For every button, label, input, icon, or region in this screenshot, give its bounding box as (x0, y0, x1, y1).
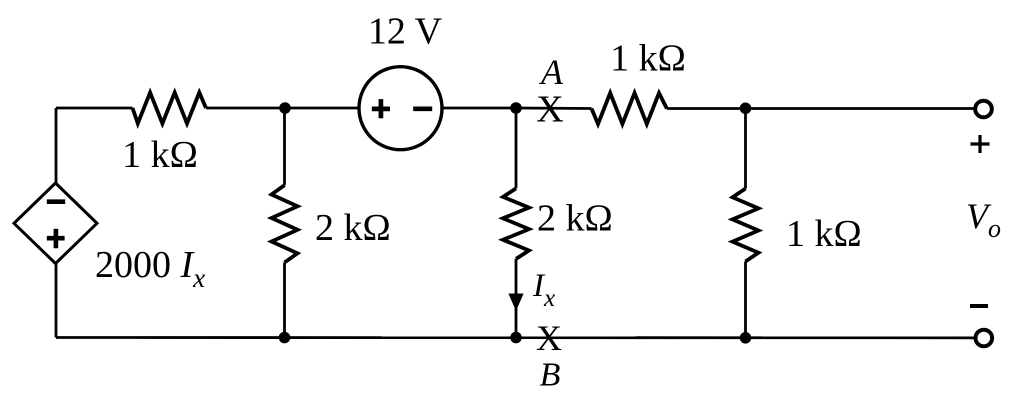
dependent source diamond 2000 Ix (14, 183, 97, 264)
wire: top rail from 12V source to node A (442, 107, 516, 110)
resistor 2 kOhm (middle, vertical) (503, 188, 529, 259)
wire: node A to R2 (516, 107, 592, 110)
plus sign at output (971, 135, 990, 153)
wire: middle branch vertical lower with current direction (515, 259, 518, 338)
wire: top-left vertical from dependent source to top rail (55, 108, 58, 183)
wire: middle branch vertical upper (515, 108, 518, 188)
svg-text:B: B (540, 357, 561, 394)
voltage source 12V circle (359, 67, 442, 150)
wire: first branch vertical upper (283, 108, 286, 185)
node: junction dot bottom-right branch (740, 332, 752, 344)
svg-text:1 kΩ: 1 kΩ (122, 134, 198, 176)
svg-text:Ix: Ix (532, 268, 555, 312)
wire: top rail left segment (56, 107, 133, 110)
wire: right branch vertical upper (744, 108, 747, 188)
svg-text:Vo: Vo (966, 196, 1001, 243)
terminal: output bottom open circle (976, 330, 993, 347)
resistor 1 kOhm (right, vertical) (733, 189, 759, 262)
wire: right branch vertical lower (744, 261, 747, 337)
resistor 2 kOhm (left, vertical) (272, 185, 298, 262)
resistor 1 kOhm (top-right, horizontal) (592, 93, 667, 124)
svg-text:2 kΩ: 2 kΩ (537, 198, 613, 240)
minus sign inside diamond (47, 199, 65, 204)
wire: bottom rail (56, 336, 974, 339)
terminal: output top open circle (975, 101, 992, 118)
node: junction dot bottom-middle (node B) (510, 332, 522, 344)
node: junction dot bottom-left branch (279, 332, 291, 344)
node: junction dot top-left (279, 102, 291, 114)
svg-text:12 V: 12 V (368, 11, 443, 53)
wire: top rail from R1 to 12V source (206, 107, 359, 110)
wire: first branch vertical lower (283, 263, 286, 338)
svg-text:2 kΩ: 2 kΩ (315, 207, 391, 249)
svg-text:A: A (539, 52, 564, 92)
node: junction dot top-right (740, 103, 752, 115)
svg-text:1 kΩ: 1 kΩ (786, 213, 862, 255)
minus sign inside 12V source (413, 106, 432, 111)
svg-text:1 kΩ: 1 kΩ (610, 38, 686, 80)
plus sign inside diamond (47, 229, 65, 248)
svg-text:X: X (536, 318, 562, 358)
current arrow Ix (down) (508, 294, 523, 312)
wire: bottom-left vertical from dependent source to bottom rail (55, 264, 58, 338)
svg-text:2000 Ix: 2000 Ix (95, 244, 205, 293)
plus sign inside 12V source (372, 99, 390, 118)
wire: top rail from R2 to output terminal (667, 107, 974, 110)
minus sign at output (970, 304, 988, 308)
resistor 1 kOhm (top-left, horizontal) (133, 93, 207, 124)
node A dot (510, 102, 522, 114)
